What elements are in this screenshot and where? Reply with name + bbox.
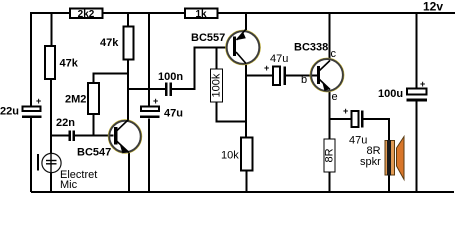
- svg-text:BC557: BC557: [191, 32, 225, 44]
- wire BC547 emitter to ground: [128, 152, 130, 192]
- svg-text:100k: 100k: [211, 73, 223, 97]
- transistor BC547 Q1: [77, 120, 142, 159]
- svg-text:Mic: Mic: [60, 179, 78, 191]
- svg-text:b: b: [301, 74, 307, 86]
- wire 47k1 bottom to mic top: [50, 79, 52, 153]
- wire 100k top lead: [216, 48, 218, 70]
- wire 100u bottom to ground: [416, 102, 418, 193]
- svg-text:100u: 100u: [378, 88, 403, 100]
- transistor BC557 Q2: [191, 29, 260, 65]
- wire left rail vertical x=31: [30, 12, 32, 107]
- svg-text:47u: 47u: [270, 53, 288, 65]
- resistor 47k R1 (mic feed): [45, 46, 79, 79]
- wire speaker bottom to ground: [388, 174, 390, 192]
- wire 2M2 top lead up and right to collector node: [94, 74, 129, 84]
- svg-text:100n: 100n: [158, 71, 183, 83]
- resistor 1k: [185, 9, 218, 20]
- wire 8R bottom to ground: [329, 172, 331, 192]
- svg-text:+: +: [420, 79, 425, 89]
- capacitor 100n: [158, 71, 183, 96]
- wire 100n right lead and up to BC557 base wire: [172, 48, 226, 90]
- svg-text:BC338: BC338: [294, 42, 328, 54]
- wire ground rail: [31, 191, 454, 193]
- wire 47k2 top lead: [127, 13, 129, 27]
- resistor 47k R2 (collector load): [100, 27, 134, 60]
- wire emitter node to 47u3: [330, 118, 352, 120]
- electret mic: [38, 153, 97, 191]
- wire collector node to 100n: [128, 88, 165, 90]
- wire 22n right lead to BC547 base: [75, 135, 114, 137]
- capacitor 22n: [56, 117, 75, 141]
- wire BC338 collector to rail: [329, 13, 331, 60]
- svg-text:c: c: [331, 48, 337, 60]
- resistor 2M2: [65, 83, 99, 114]
- capacitor 47u C3 (speaker coupling): [343, 106, 367, 147]
- wire 100k bottom lead to BC557 collector: [217, 102, 247, 122]
- svg-text:47u: 47u: [164, 108, 183, 120]
- svg-text:47u: 47u: [349, 135, 367, 147]
- svg-text:e: e: [332, 91, 338, 103]
- wire top supply rail: [31, 12, 455, 14]
- svg-text:22n: 22n: [56, 117, 75, 129]
- svg-text:+: +: [36, 96, 41, 106]
- wire BC557 collector down to 10k: [245, 64, 247, 138]
- resistor 8R (rotated label): [324, 139, 336, 172]
- wire 22n left lead: [51, 135, 69, 137]
- resistor 10k: [221, 138, 253, 171]
- svg-text:BC547: BC547: [77, 147, 111, 159]
- resistor 2k2: [70, 9, 103, 20]
- svg-text:47k: 47k: [100, 37, 119, 49]
- wire 2M2 bottom lead down to base wire: [93, 114, 95, 136]
- svg-text:8R: 8R: [324, 148, 336, 162]
- transistor BC338 Q3: [294, 42, 344, 104]
- svg-text:47k: 47k: [60, 58, 79, 70]
- capacitor 100u: [378, 79, 427, 102]
- svg-text:+: +: [264, 63, 269, 73]
- wire rail to 100u: [416, 13, 418, 89]
- wire 47u1 bottom to ground: [148, 119, 150, 193]
- svg-text:+: +: [153, 96, 158, 106]
- wire BC557 collector to 47u2: [246, 75, 273, 77]
- svg-text:2M2: 2M2: [65, 94, 86, 106]
- wire 10k bottom to ground: [246, 171, 248, 193]
- resistor 100k (rotated label): [211, 69, 223, 102]
- speaker 8R: [360, 137, 404, 180]
- wire 47u3 to speaker: [363, 119, 389, 141]
- svg-text:10k: 10k: [221, 150, 239, 162]
- wire BC547 collector vertical: [127, 60, 129, 121]
- capacitor 47u C1 (rail decoupling): [140, 96, 183, 120]
- wire rail to 47u1 vertical x=149: [148, 13, 150, 107]
- wire BC557 emitter to rail: [245, 13, 247, 31]
- svg-text:2k2: 2k2: [78, 9, 95, 20]
- capacitor 47u C2 (interstage coupling): [264, 53, 288, 85]
- svg-text:+: +: [343, 106, 348, 116]
- wire 47k1 top lead x=51.5: [51, 13, 53, 46]
- svg-text:12v: 12v: [423, 0, 443, 14]
- capacitor 22u electrolytic: [0, 96, 42, 118]
- wire BC338 emitter down to 8R: [329, 90, 331, 139]
- wire mic bottom to ground: [50, 173, 52, 192]
- wire 47u2 to BC338 base: [286, 75, 318, 77]
- svg-text:22u: 22u: [0, 105, 19, 117]
- svg-text:1k: 1k: [195, 9, 207, 20]
- svg-text:spkr: spkr: [360, 156, 381, 168]
